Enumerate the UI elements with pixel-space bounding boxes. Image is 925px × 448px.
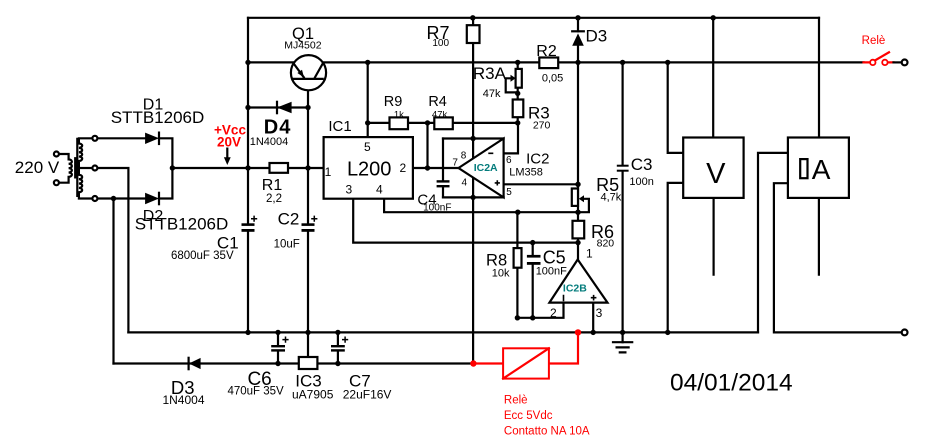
wire L200 pin2 to IC2A output — [413, 167, 459, 169]
svg-text:5: 5 — [506, 187, 512, 198]
relay coil red wires — [473, 332, 578, 363]
label D4 — [250, 117, 292, 148]
junction node (308,168) — [305, 165, 310, 170]
wire L200 pin3 branch — [353, 199, 578, 243]
wire IC3 top stub — [307, 332, 309, 357]
label C6 — [227, 369, 284, 398]
label R2 — [536, 43, 563, 85]
ammeter shunt resistor — [800, 159, 807, 178]
label IC2B — [563, 282, 587, 294]
junction node red relay left (473.4,363.5) — [470, 360, 476, 366]
junction node (578,212.2) — [575, 210, 580, 215]
wire bottom secondary terminal down — [112, 199, 114, 364]
transformer core — [75, 139, 77, 196]
diode D2 — [145, 193, 159, 204]
+Vcc arrow — [224, 149, 231, 165]
junction node (667.7,62.4) — [665, 60, 670, 65]
label +Vcc 20V — [214, 123, 246, 150]
svg-text:820: 820 — [597, 238, 615, 250]
svg-text:3: 3 — [596, 306, 603, 320]
wire voltmeter left bottom to rail — [668, 183, 684, 333]
svg-text:2: 2 — [399, 161, 406, 175]
capacitor C4 — [437, 180, 450, 187]
label D1 — [111, 97, 205, 127]
label C4 — [417, 192, 451, 214]
capacitor C5 — [527, 255, 541, 265]
junction node (278,332.4) — [275, 330, 280, 335]
junction node (308,107.5) — [305, 105, 310, 110]
label Q1 — [284, 25, 322, 52]
junction node (532.7,242.6) — [530, 240, 535, 245]
label R6 — [591, 222, 614, 250]
wire IC2A pin6 to R3 — [504, 123, 518, 153]
svg-text:R1: R1 — [262, 177, 283, 194]
svg-text:7: 7 — [452, 157, 458, 168]
wire ammeter shunt bottom to output — [774, 178, 902, 332]
capacitor C1 — [242, 216, 258, 232]
label IC3 — [292, 371, 334, 401]
wire output sense down through R5 R6 — [577, 62, 579, 259]
svg-text:IC2: IC2 — [526, 150, 549, 167]
relay switch red — [864, 52, 894, 65]
svg-text:1: 1 — [325, 165, 332, 179]
svg-text:uA7905: uA7905 — [292, 388, 334, 402]
label C3 — [629, 155, 653, 188]
svg-text:10k: 10k — [492, 267, 510, 279]
wire R9R4 junction to output sense — [426, 123, 428, 168]
junction node (713.2,17.8) — [711, 15, 716, 20]
wire left +Vcc vertical — [247, 18, 249, 333]
svg-text:Relè: Relè — [862, 35, 886, 47]
transistor Q1 — [291, 55, 326, 90]
output terminal lower — [902, 330, 908, 336]
junction node (578,17.8) — [575, 15, 580, 20]
transformer secondary winding lower — [79, 168, 93, 199]
svg-text:IC2A: IC2A — [474, 162, 498, 174]
wire rail up to ammeter shunt top — [758, 153, 804, 333]
label R3 — [528, 104, 550, 132]
svg-text:2: 2 — [550, 306, 557, 320]
label D3 bottom — [162, 377, 204, 407]
label IC2A pins — [452, 151, 512, 198]
wire output bus left (emitter feed) — [248, 61, 295, 63]
svg-text:L200: L200 — [347, 158, 392, 180]
svg-text:5: 5 — [364, 140, 371, 154]
relay coil box — [503, 348, 549, 378]
label D3 top — [586, 26, 608, 45]
op-amp IC2B triangle — [549, 260, 607, 303]
svg-text:4: 4 — [376, 182, 383, 196]
wire voltmeter bottom stub — [712, 198, 714, 275]
op-amp IC2A triangle — [459, 139, 504, 198]
junction node (593.2,332.4) — [591, 330, 596, 335]
label Rele switch — [862, 35, 886, 47]
svg-text:47k: 47k — [483, 88, 501, 100]
svg-text:1k: 1k — [394, 109, 404, 120]
wire C7 stubs — [337, 332, 339, 363]
svg-text:Contatto NA 10A: Contatto NA 10A — [504, 425, 590, 437]
capacitor C3 — [617, 165, 629, 172]
junction node (472.8,17.8) — [470, 15, 475, 20]
label IC2A — [474, 162, 498, 174]
op-amp IC2B minus plus — [564, 295, 597, 302]
junction node (427.5,168) — [425, 165, 430, 170]
capacitor C2 — [302, 216, 318, 232]
svg-text:1N4004: 1N4004 — [250, 136, 289, 148]
transformer secondary winding upper — [79, 138, 93, 168]
label R5 — [596, 175, 622, 203]
junction node (517.7,93.4) — [515, 91, 520, 96]
label R9 — [384, 94, 404, 120]
label R4 — [428, 94, 447, 120]
svg-text:6800uF 35V: 6800uF 35V — [171, 250, 234, 262]
junction node (248,332.4) — [245, 330, 250, 335]
wire IC2B pin3 to ground rail — [592, 303, 594, 333]
label R7 — [426, 23, 449, 49]
svg-text:IC1: IC1 — [328, 118, 351, 135]
svg-text:2,2: 2,2 — [266, 193, 282, 205]
wire collector junction vertical through C2 — [307, 108, 309, 333]
wire transformer top secondary to D1 — [97, 137, 146, 139]
resistor R3 — [513, 100, 524, 118]
regulator IC3 box — [299, 357, 318, 369]
svg-text:C5: C5 — [543, 248, 566, 268]
svg-text:R3A: R3A — [473, 64, 507, 83]
junction node (578,62.4) — [575, 60, 580, 65]
svg-text:100nF: 100nF — [423, 202, 451, 213]
svg-text:10uF: 10uF — [274, 238, 300, 250]
wire ammeter bottom stub — [818, 198, 820, 275]
resistor R4 — [434, 117, 453, 129]
diode D4 — [277, 102, 292, 113]
capacitor C7 — [331, 337, 348, 352]
label C5 — [536, 248, 567, 278]
svg-text:1N4004: 1N4004 — [162, 393, 204, 407]
svg-text:Ecc 5Vdc: Ecc 5Vdc — [504, 410, 553, 422]
junction node (473.1,197.4) — [470, 195, 475, 200]
wire Q1 base down — [307, 79, 309, 108]
resistor R6 — [573, 221, 585, 239]
junction node (367.7,122.9) — [365, 120, 370, 125]
op-amp IC2A minus plus — [488, 153, 500, 185]
svg-text:IC2B: IC2B — [563, 282, 587, 294]
label relay description — [504, 394, 590, 437]
wire top +Vcc rail — [248, 17, 819, 19]
potentiometer R5 — [572, 189, 589, 213]
transformer center tap wire — [79, 167, 93, 169]
svg-text:6: 6 — [506, 155, 512, 166]
junction node (517.7,122.9) — [515, 120, 520, 125]
junction node (113.5,198.5) — [111, 196, 116, 201]
wire bottom ground rail — [128, 331, 758, 333]
wire IC2B pin2 branch — [517, 303, 563, 318]
junction node (532.7,317.8) — [530, 315, 535, 320]
svg-text:22uF16V: 22uF16V — [343, 388, 392, 402]
junction node red relay right (578,332.4) — [575, 329, 581, 335]
wire D1 to rectifier junction — [159, 138, 172, 168]
svg-text:20V: 20V — [217, 134, 241, 149]
label C2 — [274, 210, 300, 251]
wire R8 stubs — [516, 212, 518, 318]
output terminal upper — [894, 60, 908, 66]
junction node (667.7,332.4) — [665, 330, 670, 335]
voltmeter box — [683, 138, 743, 198]
svg-text:R9: R9 — [384, 94, 403, 110]
wire IC2A pin4 — [443, 196, 504, 198]
resistor R7 — [467, 25, 480, 43]
junction node (517.4,317.8) — [515, 315, 520, 320]
wire C6 stubs — [277, 332, 279, 363]
svg-text:LM358: LM358 — [509, 167, 543, 179]
regulator IC1 L200 box — [324, 137, 413, 199]
resistor R9 — [390, 117, 409, 129]
svg-text:V: V — [706, 158, 726, 190]
label R1 — [262, 177, 283, 205]
svg-text:100: 100 — [432, 38, 449, 49]
junction node (172.4,168) — [170, 165, 175, 170]
label 220 V — [15, 158, 60, 177]
wire D4 branch — [248, 106, 308, 108]
svg-text:0,05: 0,05 — [542, 73, 563, 85]
label L200 pins — [325, 140, 407, 197]
svg-text:8: 8 — [461, 151, 467, 162]
svg-text:STTB1206D: STTB1206D — [135, 215, 229, 234]
svg-text:270: 270 — [533, 119, 551, 131]
junction node (278,363.5) — [275, 361, 280, 366]
wire IC2A pin8 — [443, 137, 504, 139]
wire voltmeter left top — [668, 62, 684, 152]
svg-text:Relè: Relè — [504, 394, 528, 406]
junction node (308,332.4) — [305, 330, 310, 335]
label date — [670, 370, 793, 397]
label IC2 LM358 — [509, 150, 549, 178]
wire rail to voltmeter top — [712, 18, 714, 138]
diode D3 top — [572, 31, 584, 46]
wire bus to L200 pin5 — [367, 62, 369, 137]
wire C3 stubs — [621, 62, 623, 332]
junction node (337.9,363.5) — [335, 361, 340, 366]
wire negative rail — [114, 362, 473, 364]
wire C4 stubs — [442, 139, 444, 198]
svg-text:470uF 35V: 470uF 35V — [227, 386, 284, 398]
label V meter — [706, 158, 726, 190]
diode D3 bottom — [189, 358, 201, 369]
wire L200 pin4 branch — [384, 199, 578, 213]
junction node (473.1,138.5) — [470, 136, 475, 141]
svg-text:3: 3 — [345, 182, 352, 196]
wire R3A R3 vertical — [517, 62, 519, 123]
resistor R8 — [514, 248, 522, 268]
svg-text:D3: D3 — [586, 26, 608, 45]
svg-text:47k: 47k — [432, 110, 448, 121]
wire center tap down — [97, 168, 128, 332]
svg-text:100nF: 100nF — [536, 266, 567, 278]
label IC2B pins — [550, 246, 603, 320]
svg-text:A: A — [812, 154, 831, 185]
resistor R1 — [270, 163, 289, 173]
junction node (622.6,332.4) — [620, 330, 625, 335]
junction node (248,107.5) — [245, 105, 250, 110]
label C7 — [343, 371, 392, 401]
label C1 — [171, 234, 239, 263]
wire D2 to rectifier junction — [159, 168, 172, 199]
junction node (367.7,62.4) — [365, 60, 370, 65]
svg-text:1: 1 — [586, 246, 593, 260]
label IC1 L200 — [328, 118, 391, 181]
wire supply vertical R7 line — [472, 18, 474, 364]
wire IC2A pin5 — [504, 183, 578, 185]
svg-text:MJ4502: MJ4502 — [284, 40, 322, 52]
svg-text:STTB1206D: STTB1206D — [111, 108, 205, 127]
transformer primary terminals — [54, 152, 59, 186]
transformer primary winding — [59, 154, 72, 183]
svg-text:R4: R4 — [428, 94, 447, 110]
ammeter box — [788, 138, 849, 198]
svg-text:220 V: 220 V — [15, 158, 60, 177]
label D2 — [135, 208, 229, 233]
label R3A — [473, 64, 507, 100]
junction node (337.9,332.4) — [335, 330, 340, 335]
wire R9 R4 branch — [368, 122, 518, 124]
svg-text:4: 4 — [462, 177, 468, 188]
wire output bus (collector to relay switch) — [322, 61, 864, 63]
label R8 — [486, 252, 510, 280]
svg-text:C3: C3 — [631, 155, 653, 174]
svg-text:C2: C2 — [278, 210, 300, 229]
label A meter — [812, 154, 831, 185]
junction node (517.8,212.2) — [515, 210, 520, 215]
wire C5 stubs — [532, 243, 534, 318]
svg-text:R2: R2 — [536, 43, 557, 60]
svg-text:100n: 100n — [629, 176, 653, 188]
wire rectifier output to R1 to L200 pin1 — [172, 167, 323, 169]
wire D3 stubs — [577, 18, 579, 63]
junction node (248,168) — [245, 165, 250, 170]
junction node (248,62.4) — [245, 60, 250, 65]
junction node (622.6,62.4) — [620, 60, 625, 65]
diode D1 — [145, 133, 159, 144]
junction node (578,184.3) — [575, 182, 580, 187]
junction node (578,242.6) — [575, 240, 580, 245]
svg-text:4,7k: 4,7k — [601, 191, 622, 203]
wire transformer bottom secondary to D2 — [97, 197, 146, 199]
resistor R2 — [539, 58, 558, 69]
capacitor C6 — [271, 337, 288, 352]
ground symbol — [613, 332, 632, 352]
svg-text:04/01/2014: 04/01/2014 — [670, 370, 793, 397]
wire rail to ammeter top — [818, 18, 820, 138]
potentiometer R3A — [506, 69, 522, 93]
junction node (517.7,62.4) — [515, 60, 520, 65]
junction node (427.5,122.9) — [425, 120, 430, 125]
transformer secondary terminals — [92, 136, 97, 201]
